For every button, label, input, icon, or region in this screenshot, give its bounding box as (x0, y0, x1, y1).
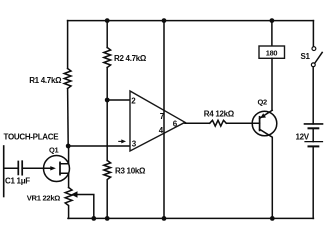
svg-text:12V: 12V (296, 133, 310, 142)
svg-text:R4 12kΩ: R4 12kΩ (204, 109, 235, 118)
svg-text:R3 10kΩ: R3 10kΩ (115, 167, 146, 176)
svg-text:TOUCH-PLACE: TOUCH-PLACE (4, 132, 60, 141)
svg-text:Q1: Q1 (49, 145, 59, 154)
svg-text:VR1 22kΩ: VR1 22kΩ (27, 193, 60, 202)
svg-text:C1 1μF: C1 1μF (5, 177, 30, 186)
svg-text:S1: S1 (301, 52, 311, 61)
svg-text:180: 180 (266, 48, 278, 57)
svg-text:Q2: Q2 (258, 98, 268, 107)
svg-text:R1 4.7kΩ: R1 4.7kΩ (29, 76, 62, 85)
svg-text:R2 4.7kΩ: R2 4.7kΩ (114, 54, 147, 63)
